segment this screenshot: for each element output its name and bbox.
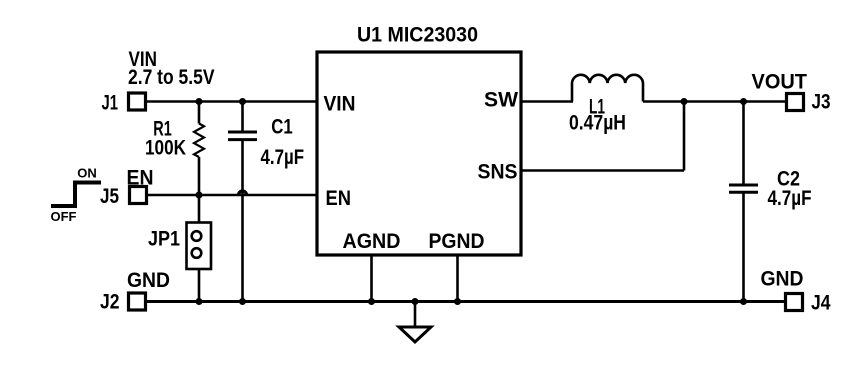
svg-text:0.47µH: 0.47µH <box>569 112 626 135</box>
wire R1 top lead <box>198 102 201 124</box>
junction node VOUT/C2 <box>740 98 747 105</box>
label JP1 <box>148 228 180 251</box>
label 2.7 to 5.5V <box>128 66 215 89</box>
capacitor C1 <box>228 132 257 140</box>
wire hop over EN at C1 crossing <box>239 191 247 195</box>
label L1 <box>589 96 605 119</box>
junction node GND/PGND <box>454 298 461 305</box>
wire C2 bottom lead <box>742 192 745 301</box>
label J3 <box>812 91 831 114</box>
label C2 <box>777 168 800 191</box>
pin label PGND (U1) <box>429 230 485 253</box>
label VIN input <box>129 48 158 71</box>
label U1 MIC23030 <box>357 24 478 47</box>
wire SW net U1 to L1 <box>521 100 573 103</box>
svg-text:EN: EN <box>127 167 154 190</box>
label R1 <box>153 118 172 141</box>
label J2 <box>100 291 120 314</box>
connector J1 <box>129 93 146 110</box>
connector J2 <box>129 293 146 310</box>
wire PGND pin lead <box>456 255 459 302</box>
svg-text:2.7 to 5.5V: 2.7 to 5.5V <box>128 66 215 89</box>
label OFF <box>51 209 77 224</box>
wire SNS net to U1 <box>521 169 684 172</box>
wire SNS vertical <box>683 102 686 171</box>
svg-text:100K: 100K <box>145 137 186 160</box>
connector J5 <box>130 187 147 204</box>
svg-text:PGND: PGND <box>429 230 485 253</box>
wire R1 bottom lead <box>198 157 201 195</box>
ground <box>399 302 431 343</box>
wire EN rail J5 to U1 <box>148 194 317 197</box>
junction node GND/ground symbol <box>412 298 419 305</box>
svg-text:OFF: OFF <box>51 209 77 224</box>
label J1 <box>102 92 119 115</box>
wire GND rail J2 to J4 <box>147 300 784 303</box>
svg-text:J3: J3 <box>812 91 831 114</box>
junction node VIN/R1 <box>196 98 203 105</box>
label 4.7uF C1 <box>261 146 305 169</box>
svg-text:J5: J5 <box>100 185 119 208</box>
capacitor C2 <box>729 185 758 192</box>
junction node GND/C1 <box>239 298 246 305</box>
junction node VIN/C1 <box>239 98 246 105</box>
label 4.7uF C2 <box>768 187 812 210</box>
label GND (J2) <box>127 269 170 292</box>
wire L1 to J3 <box>643 100 785 103</box>
svg-text:EN: EN <box>326 187 352 210</box>
svg-text:GND: GND <box>761 268 804 291</box>
svg-text:J4: J4 <box>811 292 831 315</box>
inductor L1 <box>572 75 643 102</box>
svg-text:U1 MIC23030: U1 MIC23030 <box>357 24 478 47</box>
label C1 <box>271 116 293 139</box>
connector J4 <box>786 294 803 311</box>
svg-text:C1: C1 <box>271 116 293 139</box>
svg-text:J1: J1 <box>102 92 119 115</box>
wire C1 top lead <box>241 102 244 133</box>
pin label SNS (U1) <box>478 161 518 184</box>
wire AGND pin lead <box>370 255 373 302</box>
wire C1 bottom lead to GND rail <box>241 140 244 302</box>
svg-text:GND: GND <box>127 269 170 292</box>
svg-text:4.7µF: 4.7µF <box>261 146 305 169</box>
pin label VIN (U1) <box>324 93 356 116</box>
svg-text:JP1: JP1 <box>148 228 180 251</box>
svg-text:VOUT: VOUT <box>752 71 808 94</box>
wire JP1 bottom lead <box>198 269 201 302</box>
jumper JP1 <box>187 223 212 270</box>
label 0.47uH <box>569 112 626 135</box>
label EN <box>127 167 154 190</box>
svg-text:SNS: SNS <box>478 161 518 184</box>
junction node GND/JP1 <box>196 298 203 305</box>
resistor R1 <box>194 124 204 158</box>
junction node GND/C2 <box>740 298 747 305</box>
wire JP1 top lead <box>198 195 201 222</box>
switch waveform ON/OFF <box>51 183 101 207</box>
svg-text:ON: ON <box>77 166 97 181</box>
wire VIN rail J1 to U1 <box>147 100 317 103</box>
label GND (J4) <box>761 268 804 291</box>
junction node SW/SNS <box>681 98 688 105</box>
IC U1 MIC23030 body <box>317 52 521 255</box>
svg-text:SW: SW <box>484 89 518 112</box>
svg-text:AGND: AGND <box>343 230 401 253</box>
pin label SW (U1) <box>484 89 518 112</box>
label 100K <box>145 137 186 160</box>
svg-text:J2: J2 <box>100 291 120 314</box>
connector J3 <box>787 94 804 111</box>
wire C2 top lead <box>742 102 745 186</box>
pin label AGND (U1) <box>343 230 401 253</box>
label J4 <box>811 292 831 315</box>
label J5 <box>100 185 119 208</box>
junction node GND/AGND <box>368 298 375 305</box>
svg-text:VIN: VIN <box>324 93 356 116</box>
svg-text:4.7µF: 4.7µF <box>768 187 812 210</box>
pin label EN (U1) <box>326 187 352 210</box>
junction node EN/R1/JP1 <box>196 192 203 199</box>
label ON <box>77 166 97 181</box>
label VOUT <box>752 71 808 94</box>
